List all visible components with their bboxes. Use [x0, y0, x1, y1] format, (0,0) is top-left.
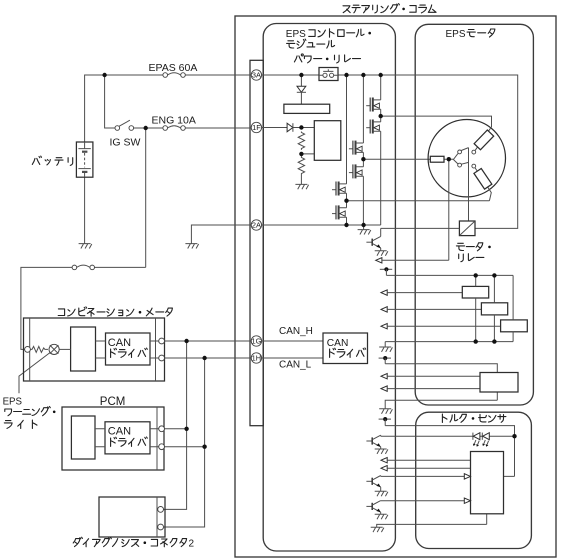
svg-text:PCM: PCM: [100, 396, 126, 408]
svg-text:1F: 1F: [252, 123, 261, 132]
svg-text:CAN_L: CAN_L: [279, 360, 312, 371]
svg-text:CAN: CAN: [327, 338, 349, 349]
svg-text:CAN: CAN: [108, 337, 131, 349]
svg-text:1G: 1G: [251, 337, 261, 346]
svg-text:EPS: EPS: [446, 29, 466, 40]
svg-text:1H: 1H: [252, 354, 261, 363]
svg-text:2A: 2A: [252, 221, 261, 230]
svg-text:EPS: EPS: [3, 396, 23, 407]
svg-text:CAN: CAN: [108, 426, 131, 438]
svg-text:IG SW: IG SW: [110, 136, 141, 148]
svg-text:CAN_H: CAN_H: [279, 326, 313, 337]
svg-text:EPS: EPS: [286, 29, 306, 40]
svg-text:ENG 10A: ENG 10A: [152, 114, 196, 126]
svg-text:3A: 3A: [252, 71, 261, 80]
svg-text:2: 2: [189, 538, 195, 549]
svg-text:EPAS 60A: EPAS 60A: [149, 62, 198, 74]
